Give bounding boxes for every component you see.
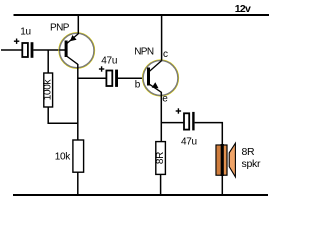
svg-text:12v: 12v bbox=[235, 3, 251, 15]
wire: R1 bottom to Q1 collector node bbox=[48, 107, 78, 123]
wire: Q1 emitter to +12v rail bbox=[77, 15, 79, 34]
svg-text:PNP: PNP bbox=[50, 22, 70, 33]
speaker LS1 8R bbox=[216, 143, 235, 177]
wire: R3 to 0v rail bbox=[160, 174, 162, 195]
wire: speaker to 0v rail bbox=[221, 175, 223, 195]
svg-text:8R: 8R bbox=[155, 152, 166, 164]
wire: base node down to R1 top bbox=[47, 50, 49, 73]
value label 8R spkr bbox=[242, 146, 261, 170]
wire: input to C1 bbox=[1, 49, 22, 51]
resistor R1 100k (base bias feedback) bbox=[43, 73, 54, 107]
resistor R3 8R (emitter load) bbox=[155, 142, 166, 175]
resistor R2 10k (collector load) bbox=[73, 140, 84, 172]
transistor Q1 PNP bbox=[59, 33, 95, 69]
wire: +12v top supply rail bbox=[14, 14, 270, 16]
transistor Q2 NPN bbox=[142, 60, 178, 96]
svg-text:spkr: spkr bbox=[242, 158, 261, 170]
svg-text:e: e bbox=[162, 94, 168, 105]
wire: collector node to C2 bbox=[78, 77, 106, 79]
wire: C2 to Q2 base bbox=[118, 77, 147, 79]
capacitor C3 47u (electrolytic, + on left) bbox=[176, 108, 195, 130]
wire: emitter node to C3 bbox=[161, 122, 183, 124]
svg-text:b: b bbox=[135, 80, 141, 91]
wire: C3 to speaker bbox=[195, 123, 223, 145]
svg-text:10k: 10k bbox=[55, 152, 72, 163]
svg-text:47u: 47u bbox=[181, 137, 197, 148]
wire: C1 to Q1 base bbox=[33, 49, 65, 51]
wire: 0v bottom rail bbox=[13, 194, 268, 196]
wire: R2 to 0v rail bbox=[77, 172, 79, 195]
capacitor C2 47u (electrolytic, + on left) bbox=[99, 66, 118, 87]
svg-text:1u: 1u bbox=[20, 27, 31, 38]
capacitor C1 1u (electrolytic, + on left) bbox=[14, 39, 34, 58]
wire: Q2 emitter down to R3 top bbox=[160, 92, 162, 142]
svg-text:8R: 8R bbox=[242, 146, 256, 158]
svg-text:NPN: NPN bbox=[134, 47, 154, 58]
svg-text:c: c bbox=[163, 49, 168, 60]
wire: Q2 collector to +12v rail bbox=[161, 15, 163, 61]
svg-text:100k: 100k bbox=[43, 78, 54, 100]
svg-text:47u: 47u bbox=[101, 56, 117, 67]
wire: Q1 collector down to R2 top bbox=[77, 64, 79, 140]
